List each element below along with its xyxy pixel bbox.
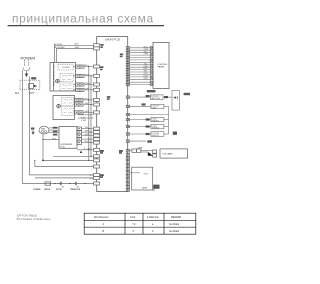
noise filter component bbox=[29, 84, 34, 89]
svg-text:HEATER: HEATER bbox=[152, 120, 160, 123]
connector pins relay1 row3 bbox=[76, 83, 80, 86]
wire relay2 row3 bbox=[83, 111, 94, 113]
svg-text:(OPTION TABLE): (OPTION TABLE) bbox=[17, 213, 38, 217]
svg-text:BLK: BLK bbox=[15, 93, 20, 95]
svg-text:PANEL: PANEL bbox=[158, 66, 166, 69]
svg-text:AC250V: AC250V bbox=[54, 43, 63, 46]
svg-text:WHT: WHT bbox=[85, 103, 91, 105]
CP wires bbox=[130, 48, 151, 85]
F tall box label bbox=[184, 93, 190, 95]
title underline bbox=[8, 25, 164, 27]
dispenser pcb box bbox=[59, 127, 77, 149]
bottom right outside label bbox=[153, 185, 159, 189]
F row C label left bbox=[146, 118, 150, 120]
svg-text:5 WK: 5 WK bbox=[81, 120, 87, 122]
svg-text:ORG: ORG bbox=[85, 83, 90, 85]
F collector vertical bbox=[168, 106, 170, 134]
label motor wire3 bbox=[53, 134, 58, 136]
svg-text:8th Character: 8th Character bbox=[94, 216, 109, 219]
wire power line N bbox=[30, 77, 94, 175]
svg-text:CONTROL: CONTROL bbox=[157, 64, 168, 66]
svg-text:TERM.FVE: TERM.FVE bbox=[70, 189, 81, 191]
wire bottom N2 bbox=[35, 177, 94, 179]
wire y149.8 dispenser bottom bbox=[77, 149, 94, 151]
wire motor row3 bbox=[49, 131, 60, 133]
wire y156 bbox=[53, 155, 94, 157]
plug body bbox=[23, 67, 30, 71]
component row item1 bbox=[45, 182, 51, 185]
connector pins relay1 row2 bbox=[76, 74, 80, 77]
CN label b bbox=[100, 66, 103, 68]
F tall box arrow bbox=[173, 96, 177, 99]
svg-text:BLU: BLU bbox=[85, 141, 90, 143]
fan motor M1 bbox=[39, 126, 49, 134]
junction dots on bus B bbox=[90, 75, 91, 76]
svg-text:EVTR: EVTR bbox=[56, 189, 62, 191]
wire relay2 row2 bbox=[83, 104, 94, 106]
F row E label right bbox=[173, 132, 177, 135]
svg-text:MAIN PCB: MAIN PCB bbox=[105, 38, 120, 42]
F row E label left bbox=[146, 133, 150, 135]
left edge pin boxes bbox=[94, 44, 100, 185]
MAIN PCB box bbox=[97, 37, 128, 192]
svg-text:Au Model: Au Model bbox=[169, 223, 180, 226]
F row D box bbox=[151, 124, 164, 128]
pin marks relay1 bbox=[77, 66, 82, 91]
CN label g bbox=[100, 174, 104, 176]
svg-text:Au Model: Au Model bbox=[169, 230, 180, 233]
wire relay2 row1 bbox=[83, 99, 94, 101]
wire relay1 row1 bbox=[84, 66, 94, 68]
svg-text:ICE LAMP: ICE LAMP bbox=[163, 153, 174, 156]
bus line B bbox=[90, 76, 92, 157]
svg-text:POWER: POWER bbox=[21, 55, 36, 60]
control panel pin circles bbox=[151, 47, 153, 85]
plug lead arrow bbox=[25, 71, 28, 77]
F row A label2 bbox=[164, 96, 168, 98]
wire y160 bbox=[43, 159, 94, 161]
relay unit 2 box bbox=[53, 96, 75, 120]
F row C box bbox=[151, 117, 164, 121]
CR label row F bbox=[147, 140, 152, 142]
F row B wire blob bbox=[142, 103, 146, 105]
F row A box bbox=[150, 95, 163, 100]
junction dot motor drain bbox=[42, 139, 43, 140]
relay 2 contact a symbols bbox=[64, 99, 73, 103]
svg-text:ORG: ORG bbox=[144, 54, 149, 56]
junction dots on bus A bbox=[34, 66, 91, 161]
svg-text:GRY: GRY bbox=[85, 88, 90, 90]
svg-text:PCB: PCB bbox=[60, 146, 65, 148]
svg-text:WHT: WHT bbox=[75, 47, 81, 49]
wire motor row1 bbox=[49, 127, 59, 129]
plug prong 2 bbox=[28, 60, 30, 66]
wire into br box a bbox=[130, 172, 140, 174]
connector pins relay1 row4 bbox=[76, 88, 80, 91]
svg-text:1A 250VAC: 1A 250VAC bbox=[54, 46, 66, 49]
svg-text:LAMP 60W: LAMP 60W bbox=[151, 97, 160, 100]
CP pin dots bbox=[128, 47, 129, 85]
wire dispenser row4 bbox=[82, 138, 94, 140]
svg-text:PLG: PLG bbox=[144, 173, 148, 175]
relay 1 contact b symbols bbox=[62, 85, 72, 89]
ICE inline connector bbox=[132, 149, 137, 152]
bottom right unit box bbox=[132, 167, 153, 190]
relay unit 1 box bbox=[50, 63, 76, 92]
bus line A bbox=[88, 67, 90, 161]
svg-text:PLG: PLG bbox=[52, 138, 57, 140]
table row 2 bbox=[103, 223, 180, 226]
svg-text:REMARK: REMARK bbox=[171, 216, 182, 219]
svg-text:RED: RED bbox=[85, 111, 90, 113]
svg-text:принципиальная схема: принципиальная схема bbox=[12, 11, 154, 25]
table header texts bbox=[94, 216, 182, 219]
label motor wire1 bbox=[53, 127, 58, 129]
connector pins relay2 row2 bbox=[75, 103, 79, 106]
svg-text:T.H FUSE: T.H FUSE bbox=[62, 67, 71, 69]
junction dot bottom right bbox=[153, 189, 154, 190]
connector pins relay2 row3 bbox=[75, 111, 79, 114]
wire AC neutral to MAIN PCB bbox=[57, 48, 94, 62]
control panel box bbox=[153, 43, 169, 89]
F row wires bbox=[130, 97, 172, 141]
wire dispenser row3 bbox=[82, 135, 94, 137]
ICE pins bbox=[153, 150, 157, 153]
F-ROOM section label bbox=[147, 90, 156, 92]
F row A label bbox=[146, 95, 150, 97]
wire motor row2 bbox=[49, 129, 59, 131]
connector pins relay1 row1 bbox=[76, 65, 84, 92]
relay 1 contact box a bbox=[60, 73, 73, 81]
dispenser connector strip bbox=[77, 127, 82, 145]
connector pins relay2 row1 bbox=[75, 98, 79, 101]
relay 2 contact box b bbox=[62, 107, 73, 116]
F right tall box bbox=[172, 90, 179, 110]
svg-text:LAMP: LAMP bbox=[152, 106, 158, 109]
dispenser pin marks bbox=[78, 128, 79, 143]
svg-text:RED: RED bbox=[144, 78, 149, 80]
F row E box bbox=[151, 132, 164, 137]
thermal fuse dashed box bbox=[58, 64, 73, 70]
component row item2 bbox=[58, 182, 64, 187]
CN label e bbox=[100, 150, 104, 152]
ICE box bbox=[160, 149, 188, 158]
wire relay1 row2 bbox=[84, 75, 94, 77]
F row B box bbox=[151, 104, 164, 108]
label motor left bbox=[31, 128, 34, 130]
wire AC line to MAIN PCB bbox=[55, 45, 94, 62]
wire component row bbox=[22, 183, 93, 185]
wire motor drain bbox=[42, 134, 44, 160]
svg-text:F-Wall Sort: F-Wall Sort bbox=[147, 216, 159, 219]
relay 1 coil bbox=[56, 79, 60, 83]
CP connector pin column bbox=[126, 47, 129, 86]
svg-text:(T_-ON): (T_-ON) bbox=[83, 148, 91, 150]
svg-text:8th Character of Model name: 8th Character of Model name bbox=[17, 217, 51, 221]
svg-text:WHT: WHT bbox=[29, 93, 35, 95]
svg-text:THERM.: THERM. bbox=[33, 189, 41, 191]
svg-text:WPXF: WPXF bbox=[44, 189, 51, 191]
svg-text:Cord: Cord bbox=[130, 216, 136, 219]
relay 2 contact box a bbox=[62, 97, 73, 105]
pin marks relay2 bbox=[76, 99, 81, 113]
relay 1 contact a symbols bbox=[62, 75, 72, 79]
relay 1 contact box b bbox=[60, 83, 73, 91]
main pcb bottom right pins bbox=[126, 149, 129, 191]
noise filter arrow bbox=[34, 85, 37, 87]
wire power line L bbox=[21, 70, 23, 184]
svg-text:SENSOR: SENSOR bbox=[152, 135, 160, 137]
relay 2 contact b symbols bbox=[64, 109, 73, 113]
wire bus junction drop bbox=[35, 160, 94, 166]
svg-text:GRN: GRN bbox=[85, 134, 90, 136]
junction triangle y160 bbox=[42, 159, 44, 161]
wire dispenser row5 bbox=[82, 142, 94, 144]
junction triangle dispenser bottom bbox=[80, 150, 82, 153]
wire mid row2 bbox=[78, 117, 94, 119]
wire mid row1 bbox=[78, 114, 94, 116]
svg-text:ORG: ORG bbox=[85, 131, 90, 133]
wire dispenser row1 bbox=[82, 128, 94, 130]
label 220V bbox=[31, 77, 36, 79]
wire dispenser row2 bbox=[82, 131, 94, 133]
component row item3 bbox=[73, 182, 79, 187]
CN label a bbox=[100, 44, 103, 46]
svg-text:FAN: FAN bbox=[41, 127, 45, 130]
wire F.S to dispenser bbox=[43, 139, 59, 141]
control panel pin strip bbox=[150, 47, 153, 86]
svg-text:LAMP: LAMP bbox=[142, 186, 148, 189]
wire relay1 row3 bbox=[84, 84, 94, 86]
fan motor winding b bbox=[44, 131, 46, 133]
fan motor winding a bbox=[42, 131, 44, 133]
CN label f bbox=[119, 150, 123, 152]
F row D label left bbox=[146, 125, 150, 127]
wire relay1 row4 bbox=[84, 89, 94, 91]
plug prong 1 bbox=[23, 60, 25, 66]
svg-text:THERMO: THERMO bbox=[152, 128, 160, 130]
svg-text:PNK: PNK bbox=[85, 74, 90, 76]
CN label d bbox=[107, 96, 111, 98]
table row 3 bbox=[103, 230, 180, 233]
svg-text:BLK: BLK bbox=[75, 44, 80, 46]
motor ground arrow bbox=[32, 130, 34, 134]
label motor wire2 bbox=[53, 131, 58, 133]
noise filter dashed box bbox=[20, 80, 40, 90]
junction dot row bbox=[54, 183, 55, 184]
wire into br box b bbox=[153, 185, 155, 187]
relay unit 1 label strip bbox=[53, 63, 55, 92]
relay 2 coil bbox=[57, 104, 61, 108]
svg-text:ODU PCB RELAY TANK: ODU PCB RELAY TANK bbox=[52, 65, 55, 87]
F row pins bbox=[126, 96, 129, 142]
option table bbox=[84, 213, 196, 234]
CP wire labels bbox=[144, 46, 149, 80]
ICE wires bbox=[130, 151, 153, 156]
CN label c bbox=[120, 54, 123, 56]
